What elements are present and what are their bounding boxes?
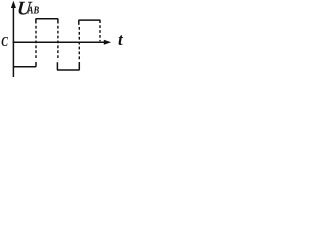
svg-text:t: t — [118, 30, 124, 49]
svg-text:C: C — [1, 33, 8, 49]
svg-text:AB: AB — [27, 4, 40, 16]
